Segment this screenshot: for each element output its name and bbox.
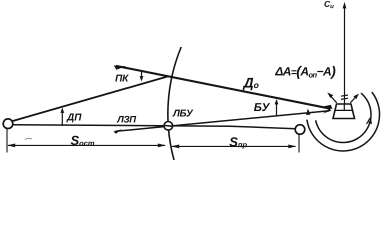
svg-text:БУ: БУ — [254, 102, 271, 114]
arrowhead at left end of outer azimuth arc — [306, 109, 310, 116]
wire: bearing line from LBU node to station (through node, arrow both ends) — [114, 109, 332, 134]
artifact: small squiggle near S_ost line — [25, 138, 32, 139]
arrow: true-meridian (C_i) vertical line with break ticks — [341, 2, 348, 104]
arrow DP: small vertical angle arrow on the left — [60, 108, 64, 127]
station symbol: inner bar — [335, 109, 353, 111]
arc: equal-distance circle through LBU node (center at station) — [168, 47, 181, 160]
wire: actual track line L1 from start node to vertex — [12, 77, 168, 122]
node: start point (departure) — [3, 119, 13, 129]
svg-text:ДП: ДП — [66, 112, 82, 123]
dimension S_pr with arrows — [171, 145, 297, 149]
wire: LZP line from start point to projected point — [13, 125, 297, 129]
arrow PK: small angle arrow at course correction — [140, 71, 144, 82]
arc: outer azimuth circle around station — [307, 92, 380, 151]
wire: D0 bearing line with double arrows — [114, 66, 333, 110]
wire: extension line below projected point — [298, 135, 300, 153]
svg-text:ЛБУ: ЛБУ — [172, 108, 194, 119]
wire: extension line below start point — [6, 129, 8, 153]
station symbol: inner mast — [343, 104, 345, 110]
node LBU: aircraft position circle with cross — [164, 122, 173, 131]
arrow: radio beam up-right from station — [350, 94, 359, 103]
svg-text:А: А — [365, 116, 373, 126]
station symbol: trapezoid (radio nav point) — [333, 104, 355, 119]
dimension S_ost with arrows — [7, 144, 166, 148]
svg-text:ПК: ПК — [115, 73, 129, 84]
arc: inner azimuth circle around station — [316, 93, 371, 142]
arrow: radio beam up-left from station — [327, 92, 336, 102]
arrow BU: small vertical angle arrow near station — [275, 99, 279, 116]
svg-text:ΔА=(Аоп−А): ΔА=(Аоп−А) — [274, 63, 336, 80]
node: projected point on LZP — [295, 125, 305, 135]
svg-text:ЛЗП: ЛЗП — [116, 114, 136, 125]
